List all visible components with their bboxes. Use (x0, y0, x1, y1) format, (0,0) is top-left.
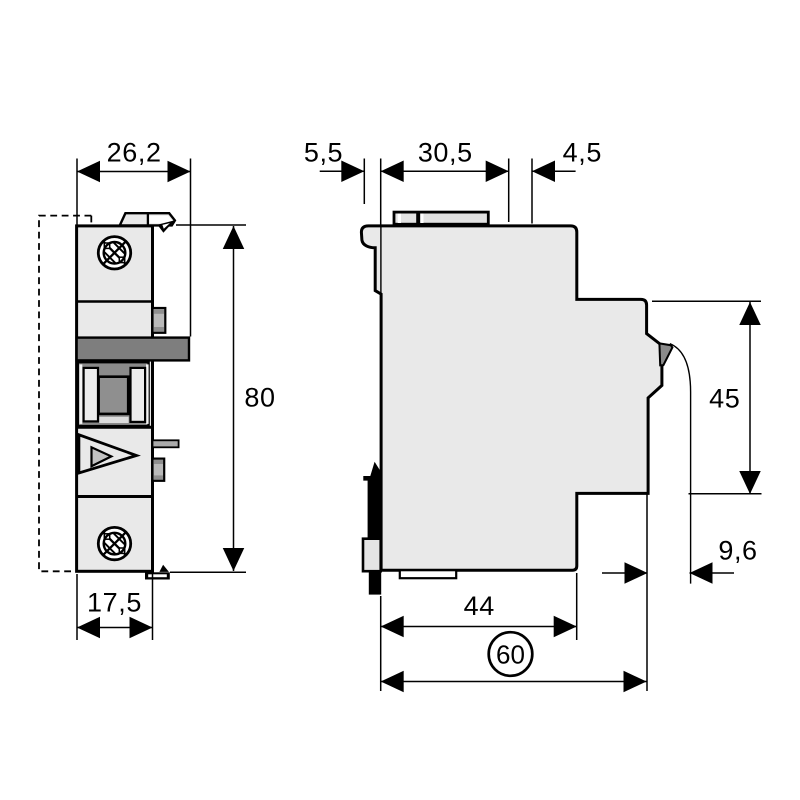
arrow 45 bottom (739, 471, 761, 494)
arrow 80 bottom (223, 548, 245, 571)
arrow 45 top (739, 302, 761, 325)
dim 44 line (381, 626, 577, 628)
arrow 26,2 right (168, 161, 191, 183)
arrow 80 top (223, 226, 245, 249)
arrow 5,5 (341, 161, 364, 183)
front body (77, 226, 153, 571)
dim 45 extension lines (652, 300, 761, 302)
top mounting hook tab (120, 213, 175, 233)
window left column (84, 368, 98, 422)
dim 17,5 line (77, 627, 153, 629)
window bottom strip (99, 417, 128, 423)
dim 4,5 extension line (531, 159, 533, 224)
arrow mark inner triangle (92, 447, 112, 466)
section line (77, 426, 153, 429)
dim 30,5 line (381, 170, 509, 172)
notch extension line (646, 494, 648, 691)
arrow 30,5 left (381, 161, 404, 183)
svg-text:5,5: 5,5 (304, 137, 343, 167)
section line (77, 495, 153, 498)
window inner slivers (79, 364, 82, 424)
arrow 26,2 left (77, 161, 100, 183)
side body outline (361, 226, 662, 570)
circled 60 (489, 632, 533, 676)
arrowheads (77, 161, 761, 693)
dim 80 extension lines (176, 224, 246, 226)
front face edge line (380, 227, 382, 570)
dim 44 extension lines (380, 596, 382, 691)
dim 60 line (381, 681, 647, 683)
dim 4,5 line (532, 170, 576, 172)
DIN clip lower bar (369, 571, 381, 594)
arrow mark outer triangle (79, 435, 137, 473)
dim 5,5 line (320, 170, 365, 172)
arrow 30,5 right (486, 161, 509, 183)
DIN clip pawl (363, 462, 381, 542)
dim 26,2 line (77, 171, 191, 173)
top terminal block (394, 212, 488, 224)
dashed DIN-rail outline (39, 216, 91, 572)
svg-text:4,5: 4,5 (563, 137, 602, 167)
bottom foot clip (145, 565, 170, 580)
dim 45 line (749, 302, 751, 494)
toggle bar (77, 338, 189, 361)
arrow 44 right (554, 616, 577, 638)
dim 17,5 extension lines (76, 574, 78, 640)
dim 30,5 extension lines (380, 159, 382, 226)
window frame (78, 362, 149, 426)
dim 80 line (233, 226, 235, 571)
DIN hook wedge (659, 343, 672, 365)
dim 5,5 extension line (363, 159, 365, 205)
svg-text:26,2: 26,2 (107, 137, 162, 167)
bottom foot block (400, 570, 456, 578)
svg-text:60: 60 (496, 640, 525, 670)
window plunger (99, 377, 129, 414)
arrow 60 right (624, 671, 647, 693)
DIN clip handle (363, 539, 381, 572)
svg-text:9,6: 9,6 (718, 536, 757, 566)
side boss lower (153, 459, 165, 481)
arrow 9,6 left (625, 562, 648, 584)
arrow 4,5 (532, 161, 555, 183)
dim 9,6 lines (602, 572, 648, 574)
dim 26,2 extension lines (76, 159, 78, 226)
svg-text:17,5: 17,5 (87, 588, 142, 618)
arrow 9,6 right (690, 562, 713, 584)
screw top (98, 237, 130, 269)
svg-text:30,5: 30,5 (418, 137, 473, 167)
hook projection curve (670, 344, 691, 584)
svg-text:80: 80 (244, 383, 275, 413)
screw bottom (98, 527, 130, 559)
svg-text:44: 44 (464, 591, 495, 621)
side boss upper (153, 308, 166, 333)
dimension labels (87, 137, 758, 621)
arrow 44 left (381, 616, 404, 638)
section line (77, 300, 153, 303)
arrow 17,5 left (77, 617, 100, 639)
arrow 17,5 right (130, 617, 153, 639)
arrow 60 left (381, 671, 404, 693)
side pin (153, 440, 179, 447)
svg-text:45: 45 (709, 384, 740, 414)
window right column (131, 368, 146, 422)
